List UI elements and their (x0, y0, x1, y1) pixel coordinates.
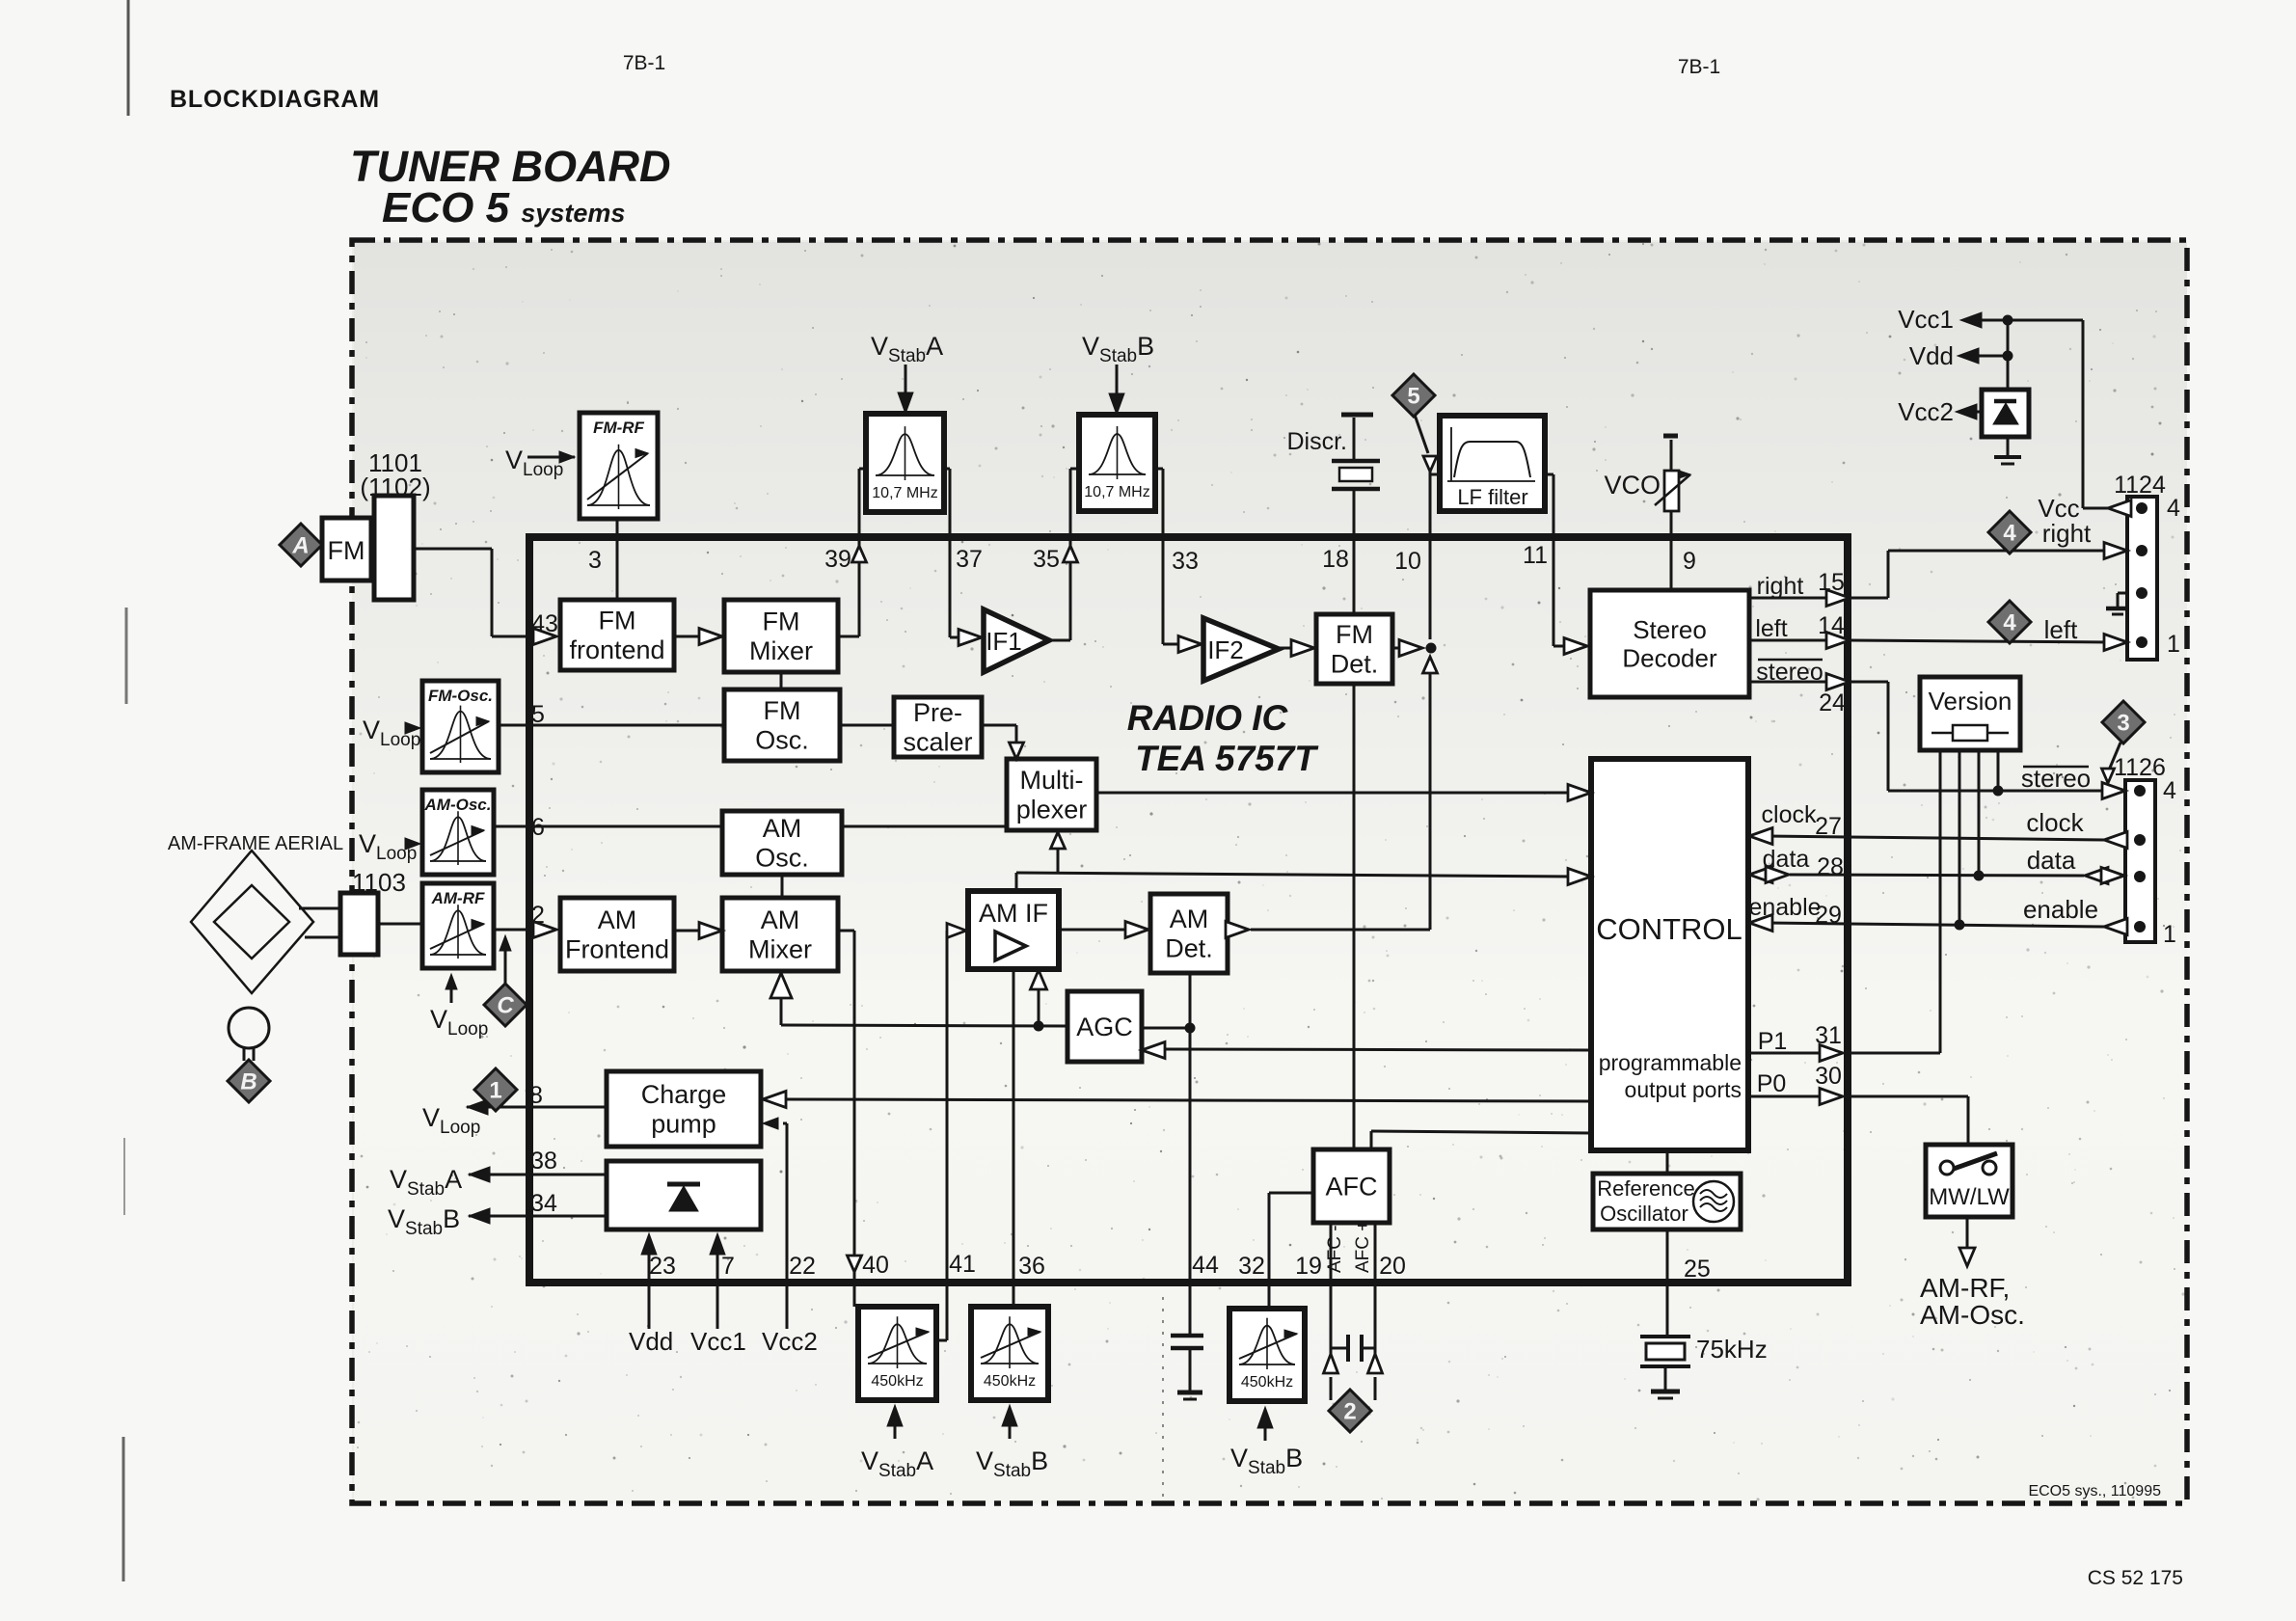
svg-text:7: 7 (721, 1253, 735, 1280)
svg-text:Det.: Det. (1331, 650, 1379, 679)
svg-text:CS 52 175: CS 52 175 (2088, 1567, 2183, 1589)
svg-text:B: B (240, 1069, 257, 1095)
svg-text:Multi-: Multi- (1020, 766, 1084, 795)
svg-text:data: data (2027, 846, 2076, 875)
svg-text:A: A (291, 533, 309, 559)
svg-text:20: 20 (1379, 1253, 1406, 1280)
svg-text:Det.: Det. (1165, 934, 1213, 963)
svg-text:31: 31 (1815, 1022, 1842, 1049)
svg-text:(1102): (1102) (360, 473, 430, 501)
svg-text:1126: 1126 (2114, 754, 2166, 781)
svg-text:FM: FM (1336, 620, 1373, 649)
svg-text:FM: FM (599, 607, 636, 635)
svg-text:right: right (1757, 573, 1804, 600)
svg-text:AM IF: AM IF (979, 899, 1048, 928)
svg-text:28: 28 (1817, 853, 1844, 880)
svg-text:FM: FM (328, 536, 365, 565)
svg-text:450kHz: 450kHz (984, 1373, 1036, 1390)
svg-text:38: 38 (530, 1148, 557, 1175)
svg-text:3: 3 (2117, 711, 2129, 737)
svg-text:19: 19 (1295, 1253, 1322, 1280)
svg-text:14: 14 (1818, 612, 1845, 639)
svg-text:stereo: stereo (2021, 764, 2091, 793)
svg-text:25: 25 (1684, 1256, 1711, 1283)
svg-text:C: C (497, 993, 514, 1019)
svg-text:35: 35 (1033, 546, 1060, 573)
svg-text:Vdd: Vdd (629, 1327, 673, 1356)
svg-text:24: 24 (1819, 689, 1846, 716)
svg-text:clock: clock (2026, 808, 2084, 837)
svg-text:6: 6 (531, 814, 545, 841)
svg-text:pump: pump (651, 1110, 716, 1139)
svg-text:450kHz: 450kHz (871, 1373, 923, 1390)
svg-text:22: 22 (789, 1253, 816, 1280)
svg-text:Charge: Charge (641, 1080, 727, 1109)
svg-text:FM: FM (763, 608, 800, 636)
svg-text:data: data (1763, 846, 1810, 873)
svg-text:4: 4 (2003, 610, 2016, 636)
svg-text:1: 1 (489, 1078, 501, 1104)
svg-text:right: right (2042, 519, 2092, 548)
svg-text:1103: 1103 (352, 868, 406, 897)
svg-text:Discr.: Discr. (1287, 428, 1348, 455)
svg-text:Osc.: Osc. (755, 726, 809, 755)
svg-text:TEA 5757T: TEA 5757T (1135, 739, 1319, 778)
svg-text:10,7 MHz: 10,7 MHz (1084, 484, 1149, 500)
svg-text:23: 23 (649, 1253, 676, 1280)
svg-text:18: 18 (1322, 546, 1349, 573)
svg-text:Vcc1: Vcc1 (1898, 305, 1954, 334)
svg-text:RADIO IC: RADIO IC (1127, 698, 1289, 738)
svg-text:41: 41 (949, 1251, 976, 1278)
svg-text:4: 4 (2167, 495, 2180, 522)
svg-text:Vdd: Vdd (1909, 341, 1954, 370)
svg-text:Vcc2: Vcc2 (1898, 397, 1954, 426)
svg-text:LF filter: LF filter (1457, 485, 1527, 509)
svg-text:8: 8 (529, 1082, 543, 1109)
svg-text:Reference: Reference (1597, 1176, 1695, 1201)
svg-text:39: 39 (824, 546, 851, 573)
svg-text:36: 36 (1018, 1253, 1045, 1280)
svg-text:AFC -: AFC - (1325, 1225, 1345, 1273)
svg-text:VCO: VCO (1604, 471, 1661, 500)
svg-text:450kHz: 450kHz (1241, 1374, 1293, 1391)
svg-text:1: 1 (2167, 631, 2180, 658)
svg-text:CONTROL: CONTROL (1596, 912, 1742, 946)
svg-text:AFC +: AFC + (1353, 1221, 1373, 1273)
svg-text:27: 27 (1815, 813, 1842, 840)
svg-text:3: 3 (588, 547, 602, 574)
svg-text:Version: Version (1929, 687, 2012, 716)
svg-text:43: 43 (531, 610, 558, 637)
svg-text:15: 15 (1818, 569, 1845, 596)
svg-text:2: 2 (1343, 1399, 1356, 1425)
svg-text:AM-Osc.: AM-Osc. (1920, 1300, 2025, 1330)
svg-text:left: left (2044, 615, 2078, 644)
svg-text:33: 33 (1172, 548, 1199, 575)
svg-text:34: 34 (530, 1190, 557, 1217)
svg-text:AGC: AGC (1076, 1013, 1133, 1041)
svg-text:P0: P0 (1757, 1070, 1787, 1097)
svg-text:output ports: output ports (1625, 1077, 1742, 1102)
svg-text:stereo: stereo (1756, 659, 1823, 686)
svg-text:10: 10 (1394, 548, 1421, 575)
svg-text:7B-1: 7B-1 (623, 52, 665, 74)
svg-text:32: 32 (1238, 1253, 1265, 1280)
svg-text:BLOCKDIAGRAM: BLOCKDIAGRAM (170, 86, 380, 113)
svg-text:5: 5 (531, 701, 545, 728)
svg-text:ECO5 sys., 110995: ECO5 sys., 110995 (2028, 1483, 2161, 1499)
svg-text:2: 2 (531, 902, 545, 929)
svg-text:P1: P1 (1758, 1028, 1788, 1055)
svg-text:Vcc2: Vcc2 (762, 1327, 818, 1356)
svg-text:Mixer: Mixer (749, 636, 813, 665)
svg-text:FM-RF: FM-RF (593, 419, 644, 437)
svg-text:44: 44 (1192, 1252, 1219, 1279)
svg-text:Frontend: Frontend (565, 935, 669, 964)
svg-text:1: 1 (2163, 921, 2176, 948)
svg-text:AM-RF,: AM-RF, (1920, 1273, 2010, 1303)
svg-text:left: left (1755, 615, 1787, 642)
svg-text:enable: enable (2023, 895, 2098, 924)
svg-text:IF2: IF2 (1207, 635, 1244, 664)
svg-text:plexer: plexer (1016, 796, 1088, 824)
svg-text:AM-Osc.: AM-Osc. (424, 796, 492, 814)
svg-text:Vcc1: Vcc1 (690, 1327, 746, 1356)
svg-text:AM: AM (763, 814, 802, 843)
svg-text:40: 40 (862, 1252, 889, 1279)
svg-text:75kHz: 75kHz (1696, 1335, 1768, 1364)
svg-text:MW/LW: MW/LW (1929, 1184, 2010, 1210)
svg-text:AM-FRAME AERIAL: AM-FRAME AERIAL (168, 833, 343, 854)
svg-text:Decoder: Decoder (1622, 643, 1717, 672)
svg-text:AM: AM (1170, 905, 1209, 933)
svg-text:Osc.: Osc. (755, 844, 809, 873)
svg-text:AM: AM (598, 905, 637, 934)
svg-text:29: 29 (1815, 902, 1842, 929)
svg-text:5: 5 (1407, 384, 1419, 410)
svg-text:Oscillator: Oscillator (1600, 1202, 1688, 1226)
svg-text:frontend: frontend (569, 635, 664, 664)
svg-text:37: 37 (956, 546, 983, 573)
svg-text:FM: FM (764, 696, 801, 725)
svg-text:AM: AM (761, 905, 800, 934)
svg-text:programmable: programmable (1599, 1050, 1742, 1075)
svg-text:9: 9 (1683, 548, 1696, 575)
svg-text:AM-RF: AM-RF (431, 889, 485, 907)
svg-text:Stereo: Stereo (1633, 615, 1707, 644)
svg-text:4: 4 (2003, 521, 2016, 547)
svg-text:FM-Osc.: FM-Osc. (428, 687, 493, 705)
svg-text:AFC: AFC (1326, 1172, 1378, 1201)
svg-text:1124: 1124 (2114, 472, 2166, 499)
svg-text:10,7 MHz: 10,7 MHz (872, 485, 937, 501)
svg-text:Pre-: Pre- (913, 698, 962, 727)
svg-text:11: 11 (1523, 542, 1548, 569)
svg-text:enable: enable (1748, 894, 1821, 921)
svg-text:scaler: scaler (903, 728, 972, 757)
svg-text:Mixer: Mixer (748, 935, 812, 964)
svg-text:30: 30 (1815, 1063, 1842, 1090)
svg-text:clock: clock (1762, 801, 1817, 828)
svg-text:IF1: IF1 (986, 627, 1022, 656)
svg-text:4: 4 (2163, 777, 2176, 804)
svg-text:7B-1: 7B-1 (1678, 56, 1720, 78)
